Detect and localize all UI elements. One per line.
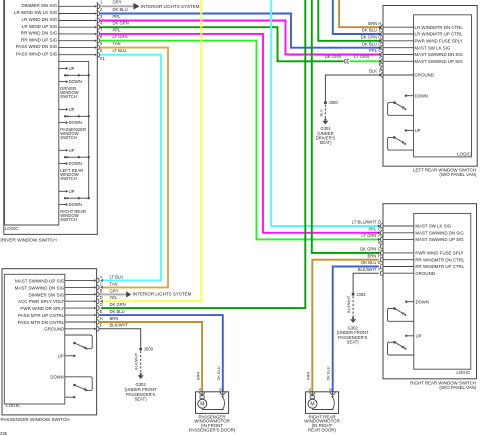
svg-text:H: H: [378, 21, 381, 26]
inline connector DK GRN / LT GRN: [344, 59, 346, 63]
left rear switch UP switch element: [388, 137, 414, 150]
right rear switch pin G: [380, 251, 382, 256]
svg-text:DOWN: DOWN: [69, 161, 82, 166]
svg-text:DOWN: DOWN: [50, 374, 63, 379]
svg-text:BLK/WHT: BLK/WHT: [346, 295, 351, 313]
svg-text:PWR WIND FUSE SPLY: PWR WIND FUSE SPLY: [415, 251, 463, 256]
svg-text:3: 3: [100, 14, 103, 19]
svg-text:DK BLU: DK BLU: [110, 309, 125, 314]
left rear window switch element UP contact: [59, 149, 66, 151]
passenger window switch element wiper: [64, 115, 89, 117]
svg-text:TAN: TAN: [110, 281, 118, 286]
wire BLK dashed to ground G301: [324, 105, 326, 119]
svg-text:J302: J302: [356, 292, 366, 297]
wire BLK/WHT right rear switch ground to junction J302: [353, 273, 379, 293]
svg-text:1: 1: [100, 0, 103, 5]
left rear window switch element DOWN contact: [59, 163, 66, 165]
svg-text:J300: J300: [329, 100, 339, 105]
svg-text:MAST SWWIND DN SIG: MAST SWWIND DN SIG: [415, 231, 464, 236]
passenger window switch element UP contact: [59, 108, 66, 110]
svg-text:PASS WIND DN SIG: PASS WIND DN SIG: [16, 44, 58, 49]
driver window switch element wiper: [64, 74, 89, 76]
svg-text:PASSENGER WINDOW SWITCH: PASSENGER WINDOW SWITCH: [1, 417, 70, 422]
ground G301: [324, 119, 326, 121]
svg-text:UP: UP: [69, 189, 75, 194]
passenger window switch element DOWN contact: [59, 122, 66, 124]
svg-text:BLK/WHT: BLK/WHT: [358, 267, 377, 272]
svg-text:DIMMER SW SIG: DIMMER SW SIG: [22, 3, 58, 8]
svg-text:E: E: [378, 260, 381, 265]
svg-text:(W/O PANEL VAN): (W/O PANEL VAN): [439, 172, 476, 177]
svg-text:J500: J500: [144, 347, 154, 352]
right rear window switch element DOWN contact: [59, 204, 66, 206]
svg-text:MAST SW LK SIG: MAST SW LK SIG: [415, 45, 451, 50]
svg-text:X1: X1: [100, 56, 106, 61]
svg-text:UP: UP: [416, 333, 422, 338]
svg-text:G: G: [100, 302, 103, 307]
left rear switch DOWN contact: [405, 95, 407, 97]
wire BRN passenger motor down control: [99, 322, 202, 392]
svg-text:RR WINDMTR DN CTRL: RR WINDMTR DN CTRL: [415, 257, 465, 262]
right rear switch DOWN switch element: [388, 309, 414, 322]
svg-text:DK BLU: DK BLU: [326, 366, 331, 380]
left rear switch pin C: [381, 52, 383, 57]
right rear window switch element UP contact: [59, 190, 66, 192]
junction J300: [324, 101, 327, 104]
svg-text:LT GRN: LT GRN: [354, 54, 369, 59]
svg-text:GRY: GRY: [113, 0, 122, 5]
svg-text:SWITCH: SWITCH: [60, 176, 77, 181]
right rear switch pin B: [380, 244, 382, 249]
svg-text:A: A: [100, 274, 103, 279]
svg-text:BRN: BRN: [306, 372, 311, 380]
right rear switch pin H: [380, 257, 382, 262]
ground G302 left: [140, 373, 142, 375]
svg-text:B: B: [218, 388, 223, 391]
left rear switch pin D: [381, 45, 383, 50]
svg-text:D: D: [378, 220, 381, 225]
svg-text:LR WIND SW LK SIG: LR WIND SW LK SIG: [14, 10, 58, 15]
svg-text:BLK/WHT: BLK/WHT: [133, 352, 138, 370]
svg-text:MAST SWWIND DN SIG: MAST SWWIND DN SIG: [415, 52, 464, 57]
svg-text:M: M: [310, 401, 314, 407]
svg-text:A: A: [378, 233, 381, 238]
left rear window switch logic box: [414, 15, 472, 157]
interior lights system arrow top: [133, 3, 139, 10]
left rear switch pin G: [381, 38, 383, 43]
svg-text:A: A: [197, 388, 202, 391]
svg-text:DK BLU: DK BLU: [362, 28, 377, 33]
svg-text:DK BLU: DK BLU: [216, 366, 221, 380]
passenger window motor: [196, 392, 229, 414]
svg-text:BRN: BRN: [368, 253, 377, 258]
right rear switch pin D: [380, 224, 382, 229]
wire DK BLU motor up control from top to left rear switch pin E: [333, 0, 381, 34]
svg-text:MAST SWWIND UP SIG: MAST SWWIND UP SIG: [415, 237, 464, 242]
svg-text:BLK/WHT: BLK/WHT: [110, 323, 129, 328]
svg-text:BRN: BRN: [195, 372, 200, 380]
svg-text:DK BLU: DK BLU: [361, 260, 376, 265]
svg-text:DOWN: DOWN: [69, 120, 82, 125]
left rear switch DOWN switch element: [388, 103, 414, 116]
svg-text:PASS MTR DN CNTRL: PASS MTR DN CNTRL: [18, 320, 65, 325]
wire YEL accessory power from top to passenger switch pin D: [103, 0, 202, 301]
wire BLK/WHT dashed to ground G302 right: [352, 296, 354, 317]
right rear window motor: [306, 392, 339, 414]
svg-text:LOGIC: LOGIC: [456, 370, 470, 375]
svg-text:PASS WIND UP SIG: PASS WIND UP SIG: [16, 51, 58, 56]
svg-text:DOWN: DOWN: [69, 79, 82, 84]
svg-text:RR WIND UP SIG: RR WIND UP SIG: [21, 37, 58, 42]
svg-text:SWITCH: SWITCH: [60, 135, 77, 140]
driver window switch outer box: [4, 0, 98, 234]
right rear switch DOWN contact: [405, 301, 407, 303]
svg-text:D: D: [378, 41, 381, 46]
passenger switch UP switch element: [65, 335, 92, 349]
svg-text:UP: UP: [69, 148, 75, 153]
driver window switch element UP contact: [59, 67, 66, 69]
svg-text:DK BLU: DK BLU: [362, 41, 377, 46]
svg-text:LOGIC: LOGIC: [457, 152, 471, 157]
left rear window switch element wiper: [64, 156, 89, 158]
svg-text:BLK: BLK: [319, 109, 324, 117]
passenger switch lower contact: [65, 396, 74, 398]
svg-text:PASSENGER'S DOOR): PASSENGER'S DOOR): [189, 428, 236, 433]
svg-text:B: B: [378, 240, 381, 245]
right rear window switch outer box: [383, 204, 477, 379]
svg-text:LT BLU: LT BLU: [113, 48, 127, 53]
svg-text:DOWN: DOWN: [69, 202, 82, 207]
wire GRY dimmer signal to interior lights bottom: [99, 293, 126, 295]
svg-text:C: C: [100, 281, 103, 286]
svg-text:LT GRN: LT GRN: [361, 233, 376, 238]
wire DK GRN power window feed from top to left rear switch pin G: [318, 0, 381, 41]
junction J302: [352, 293, 355, 296]
passenger window switch outer box: [2, 269, 97, 415]
svg-text:MAST SWWIND UP SIG: MAST SWWIND UP SIG: [415, 59, 464, 64]
wire BRN right rear motor down control: [312, 260, 378, 392]
passenger switch UP contact: [65, 355, 74, 357]
svg-text:SWITCH: SWITCH: [60, 217, 77, 222]
svg-text:UP: UP: [58, 353, 64, 358]
svg-text:F: F: [379, 69, 382, 74]
svg-text:LT BLU/WHT: LT BLU/WHT: [352, 220, 377, 225]
wire LT BLU/WHT lock signal from top to right rear switch pin D: [271, 0, 379, 226]
svg-text:RR WINDMTR UP CTRL: RR WINDMTR UP CTRL: [415, 264, 464, 269]
svg-text:DRIVER WINDOW SWITCH: DRIVER WINDOW SWITCH: [0, 238, 57, 243]
svg-text:DK GRN: DK GRN: [325, 54, 341, 59]
svg-text:BLK: BLK: [369, 69, 377, 74]
svg-text:PASS MTR UP CNTRL: PASS MTR UP CNTRL: [18, 313, 65, 318]
svg-text:SWITCH: SWITCH: [60, 94, 77, 99]
left rear switch pin A: [381, 59, 383, 64]
svg-text:PPL: PPL: [368, 227, 377, 232]
left rear switch UP contact: [405, 129, 407, 131]
svg-text:DIMMER SW SIG: DIMMER SW SIG: [29, 292, 65, 297]
right rear switch pin A: [380, 237, 382, 242]
svg-text:MAST SWWIND UP SIG: MAST SWWIND UP SIG: [15, 278, 65, 283]
wire DK GRN power window feed from top to passenger switch pin G: [103, 0, 305, 308]
svg-text:C: C: [378, 227, 381, 232]
svg-text:SEAT): SEAT): [135, 397, 148, 402]
svg-text:INTERIOR LIGHTS SYSTEM: INTERIOR LIGHTS SYSTEM: [133, 292, 192, 297]
right rear window switch element wiper: [64, 197, 89, 199]
svg-text:A: A: [307, 388, 312, 391]
driver switch contact bus box: [59, 62, 89, 198]
svg-text:BRN: BRN: [368, 21, 377, 26]
wire DK GRN master up signal to inline connector: [100, 27, 344, 61]
svg-text:F: F: [100, 323, 103, 328]
wire PPL master down signal to right rear switch pin C: [100, 34, 379, 233]
driver window switch logic box: [5, 0, 59, 225]
svg-text:DOWN: DOWN: [416, 299, 429, 304]
svg-text:B: B: [100, 288, 103, 293]
svg-text:BRN: BRN: [110, 316, 119, 321]
svg-text:E: E: [100, 309, 103, 314]
svg-text:G: G: [378, 247, 381, 252]
left rear switch pin H: [381, 25, 383, 30]
right rear switch UP switch element: [388, 342, 414, 355]
svg-text:LR WIND UP SIG: LR WIND UP SIG: [22, 24, 58, 29]
left rear switch pin E: [381, 32, 383, 37]
svg-text:REAR DOOR): REAR DOOR): [308, 428, 337, 433]
wire BRN motor down control from top to left rear switch pin H: [339, 0, 381, 27]
svg-text:UP: UP: [69, 107, 75, 112]
wire GRY dimmer signal to interior lights: [100, 5, 133, 7]
svg-text:D: D: [100, 295, 103, 300]
svg-text:YEL: YEL: [110, 295, 119, 300]
svg-text:5: 5: [100, 41, 103, 46]
driver window switch element DOWN contact: [59, 81, 66, 83]
left rear switch pin F: [381, 73, 383, 78]
ground G302 right: [352, 317, 354, 319]
svg-text:SEAT): SEAT): [347, 340, 360, 345]
right rear switch pin F: [380, 271, 382, 276]
svg-text:M: M: [200, 401, 204, 407]
svg-text:DK GRN: DK GRN: [360, 247, 376, 252]
svg-text:ACC PWR SPLY VOLT: ACC PWR SPLY VOLT: [18, 299, 65, 304]
junction J500: [139, 348, 142, 351]
svg-text:GROUND: GROUND: [415, 271, 435, 276]
right rear switch pin C: [380, 230, 382, 235]
svg-text:E: E: [379, 28, 382, 33]
svg-text:DK GRN: DK GRN: [110, 302, 126, 307]
svg-text:UP: UP: [69, 66, 75, 71]
svg-text:C: C: [378, 48, 381, 53]
svg-text:LR WIND DN SIG: LR WIND DN SIG: [22, 17, 58, 22]
svg-text:6: 6: [100, 48, 103, 53]
svg-text:PPL: PPL: [369, 48, 378, 53]
svg-text:MAST SW LK SIG: MAST SW LK SIG: [415, 224, 451, 229]
wire PPL master down signal to left rear switch pin C: [100, 21, 381, 55]
svg-text:LT BLU: LT BLU: [110, 274, 124, 279]
wire DK BLU passenger motor up control: [99, 315, 223, 392]
svg-text:INTERIOR LIGHTS SYSTEM: INTERIOR LIGHTS SYSTEM: [141, 4, 200, 9]
svg-text:LR WINDMTR DN CTRL: LR WINDMTR DN CTRL: [415, 25, 464, 30]
svg-text:A: A: [379, 55, 382, 60]
wire LT GRN inline connector to left rear switch pin A: [350, 60, 381, 62]
right rear window switch logic box: [414, 213, 471, 369]
svg-text:PWR WIND DR SPLY: PWR WIND DR SPLY: [20, 306, 64, 311]
svg-text:RR WIND DN SIG: RR WIND DN SIG: [21, 31, 58, 36]
svg-text:SEAT): SEAT): [319, 140, 332, 145]
svg-text:DK GRN: DK GRN: [361, 35, 377, 40]
svg-text:H: H: [378, 253, 381, 258]
svg-text:(W/O PANEL VAN): (W/O PANEL VAN): [439, 385, 476, 390]
wire DK GRN power window feed from top to right rear switch pin G: [312, 0, 380, 253]
svg-text:LR WINDMTR UP CTRL: LR WINDMTR UP CTRL: [415, 32, 464, 37]
wire DK BLU master lock signal to left rear switch pin D: [100, 14, 381, 48]
svg-text:PWR WIND FUSE SPLY: PWR WIND FUSE SPLY: [415, 39, 463, 44]
wire BLK/WHT passenger switch ground to junction J500: [99, 329, 140, 348]
wire BLK left rear switch ground to junction J300: [325, 75, 380, 101]
svg-text:DOWN: DOWN: [415, 93, 428, 98]
svg-text:B: B: [327, 388, 332, 391]
wire LT BLU master up signal to passenger switch pin A: [100, 55, 161, 281]
svg-text:TAN: TAN: [113, 41, 121, 46]
wire TAN master down signal to passenger switch pin C: [100, 48, 168, 288]
svg-text:F: F: [378, 267, 381, 272]
svg-text:B: B: [379, 62, 382, 67]
svg-text:GROUND: GROUND: [415, 73, 435, 78]
svg-text:LOGIC: LOGIC: [6, 403, 20, 408]
svg-text:235: 235: [0, 431, 8, 435]
svg-text:UP: UP: [415, 128, 421, 133]
right rear switch pin E: [380, 264, 382, 269]
svg-text:H: H: [100, 316, 103, 321]
svg-text:2: 2: [100, 7, 103, 12]
right rear switch UP contact: [405, 335, 407, 337]
wire DK BLU right rear motor up control: [333, 267, 379, 392]
svg-text:PPL: PPL: [113, 14, 122, 19]
passenger window switch logic box: [4, 274, 65, 404]
wire BLK/WHT dashed to ground G302 left: [140, 351, 142, 373]
svg-text:LOGIC: LOGIC: [5, 226, 19, 231]
svg-text:MAST SWWIND DN SIG: MAST SWWIND DN SIG: [15, 285, 65, 290]
wire LT GRN master up signal to right rear switch pin A: [100, 41, 379, 240]
svg-text:DK BLU: DK BLU: [113, 7, 128, 12]
left rear window switch outer box: [383, 6, 477, 167]
interior lights system arrow bottom: [126, 291, 131, 297]
svg-text:GRY: GRY: [110, 288, 119, 293]
svg-text:G: G: [378, 35, 381, 40]
svg-text:GROUND: GROUND: [44, 327, 65, 332]
left rear switch pin B: [381, 66, 383, 71]
